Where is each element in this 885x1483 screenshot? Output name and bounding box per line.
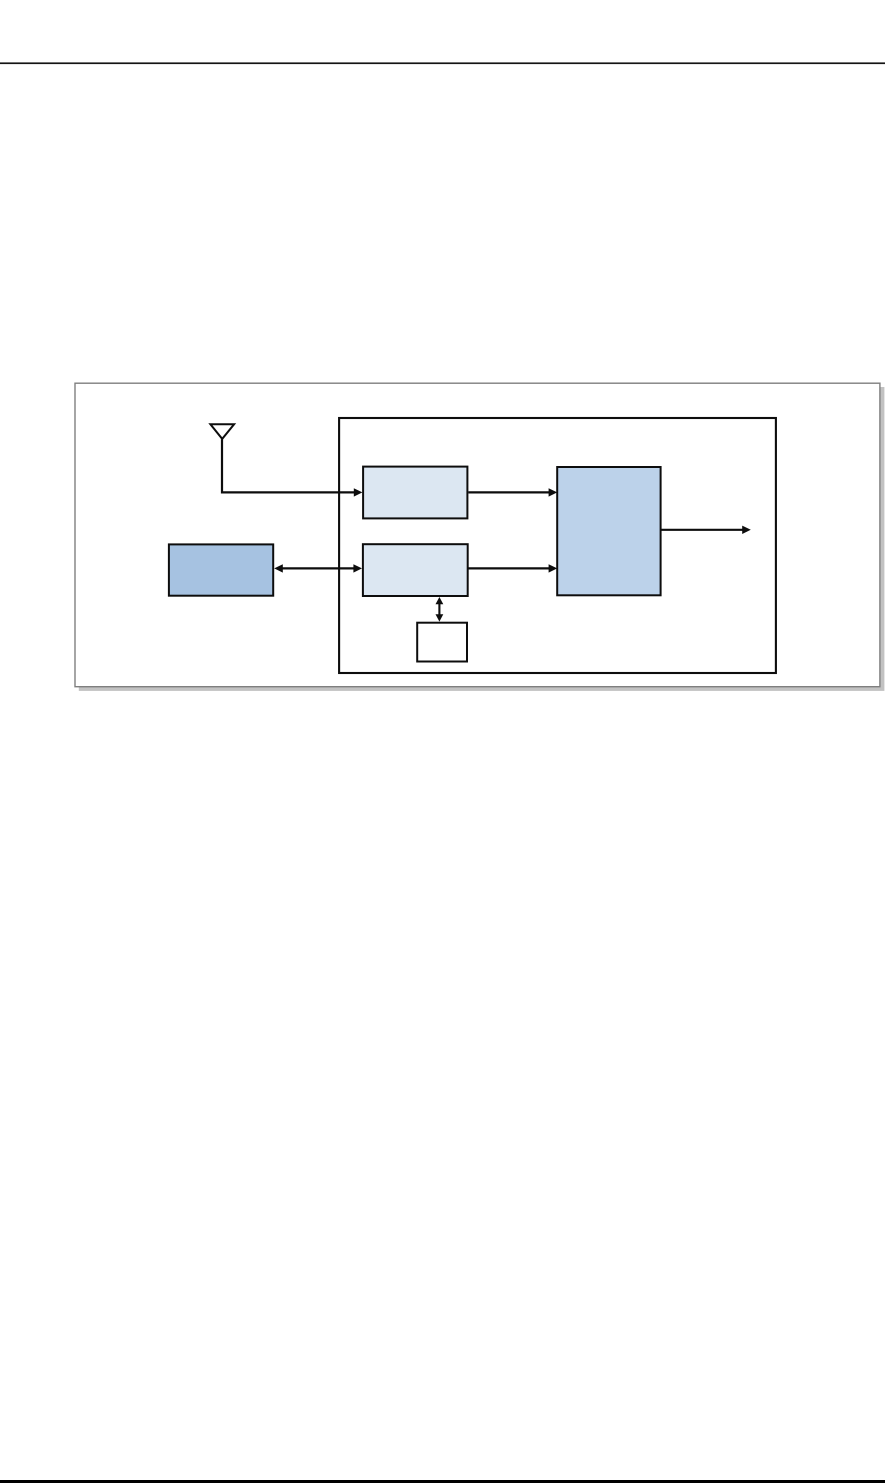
wire output arrow [662,529,743,531]
module outline [339,418,776,673]
wire block B to block C [468,567,549,569]
block E small [417,623,467,662]
antenna [210,424,234,439]
footer bar [0,1480,885,1483]
block D external [169,544,273,595]
block C large [557,467,660,595]
wire bidirectional block B to block E [438,604,440,615]
wire antenna feed [222,439,354,492]
figure frame [75,383,880,687]
wire block A to block C [468,491,549,493]
figure frame shadow [79,387,885,691]
wire bidirectional block D to block B [282,567,353,569]
block A upper [363,467,467,519]
block B lower [363,544,468,596]
header rule [0,62,885,64]
